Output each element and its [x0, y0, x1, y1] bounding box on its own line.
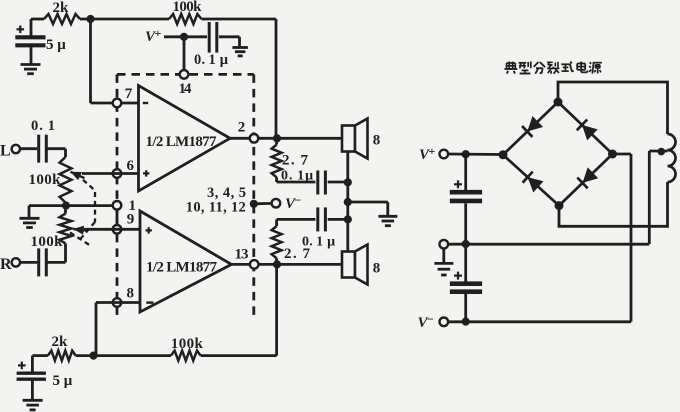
svg-text:13: 13	[235, 247, 249, 263]
node O (transformer center tap)	[649, 150, 667, 153]
svg-text:+: +	[155, 26, 162, 40]
svg-text:2k: 2k	[53, 0, 70, 16]
potentiometer RP1 100k (L volume)	[60, 157, 72, 203]
ground (below C1)	[21, 63, 41, 66]
resistor R5 2.7 (Zobel A)	[275, 138, 278, 144]
wire (transformer bottom to AC vertex)	[559, 182, 668, 226]
svg-text:3, 4, 5: 3, 4, 5	[207, 185, 246, 201]
wire (mid rail / center tap)	[448, 243, 649, 246]
wire (V- rail)	[448, 320, 631, 323]
pin 8 (inverting input B)	[113, 298, 122, 307]
wire (center tap to mid rail)	[648, 151, 651, 244]
node E (output A junction)	[273, 134, 281, 142]
svg-text:2k: 2k	[52, 334, 69, 350]
svg-text:100k: 100k	[173, 0, 203, 15]
svg-text:0. 1μ: 0. 1μ	[281, 169, 313, 184]
node A (R1/R2/pin7 junction)	[86, 15, 94, 23]
node G (speaker return top)	[344, 178, 352, 186]
diode D1 (bridge top-left)	[503, 102, 558, 155]
pin 2 (output A)	[230, 137, 342, 140]
node Q (V- / C9 junction)	[462, 318, 470, 326]
mechanical gang link (dashed)	[83, 180, 95, 222]
svg-text:1/2 LM1877: 1/2 LM1877	[146, 134, 218, 150]
svg-text:10, 11, 12: 10, 11, 12	[186, 200, 246, 216]
wire (V+ to C2)	[164, 35, 207, 38]
wire (pin 8 to feedback)	[96, 301, 140, 304]
svg-text:7: 7	[125, 86, 133, 102]
resistor R1 2k (top)	[31, 18, 44, 21]
svg-text:R: R	[0, 256, 12, 273]
wire (node A down to pin 7)	[89, 19, 92, 103]
ground (V+ bypass)	[232, 46, 248, 49]
wire (top AC vertex to transformer)	[558, 82, 668, 134]
node V- (IC supply tap)	[250, 200, 258, 208]
ground (below C5)	[23, 399, 43, 402]
capacitor C9 (lower filter electrolytic)	[464, 244, 467, 282]
svg-text:2. 7: 2. 7	[282, 153, 309, 169]
wire (V+ rail)	[448, 153, 503, 156]
ground (volume pots)	[20, 217, 40, 220]
svg-text:2: 2	[238, 120, 246, 136]
capacitor C6 0.1u (Zobel A)	[277, 181, 316, 184]
svg-text:8: 8	[373, 261, 381, 277]
wire (R4 to output node 13)	[201, 354, 277, 357]
wiper (RP1 to pin 6)	[71, 172, 85, 178]
wire (R1 to R2, top rail)	[80, 18, 169, 21]
svg-text:8: 8	[127, 286, 135, 302]
wire (C3 to volume pot)	[46, 147, 65, 150]
capacitor C5 5u (bottom electrolytic)	[31, 356, 34, 372]
op-amp U1A (1/2 LM1877)	[139, 86, 231, 192]
wiper (RP2 to pin 9)	[73, 229, 87, 231]
diode D4 (bridge bottom-right)	[559, 154, 613, 206]
wire (bridge - to V- rail)	[613, 153, 632, 156]
svg-text:+: +	[429, 144, 436, 158]
svg-text:100k: 100k	[31, 234, 64, 250]
capacitor C1 5u (top-left electrolytic)	[30, 19, 33, 38]
capacitor C4 0.1 (R input coupling)	[37, 248, 40, 276]
node N (bridge bottom AC vertex)	[555, 201, 564, 210]
svg-text:0. 1 μ: 0. 1 μ	[194, 52, 229, 68]
svg-text:6: 6	[127, 158, 135, 174]
resistor R2 100k (top feedback)	[169, 14, 202, 24]
svg-text:100k: 100k	[29, 172, 62, 188]
node P (mid rail terminal)	[440, 240, 449, 249]
wire (C2 to ground)	[219, 35, 240, 38]
node J (V+ / C8 junction)	[462, 150, 470, 158]
node L2 (bridge top AC vertex)	[554, 98, 563, 107]
wire (R2 to output node, feedback)	[202, 18, 277, 21]
svg-text:1/2 LM1877: 1/2 LM1877	[146, 260, 218, 276]
diode D2 (bridge bottom-left)	[503, 155, 559, 206]
svg-text:0. 1 μ: 0. 1 μ	[302, 235, 335, 250]
resistor R3 2k (bottom)	[32, 354, 48, 357]
capacitor C3 0.1 (L input coupling)	[37, 135, 40, 163]
node H (speaker return bottom)	[344, 215, 352, 223]
pin 13 (output B)	[232, 263, 343, 266]
pin 7 (inverting input A)	[113, 99, 122, 108]
wire (pin 14 stub)	[183, 37, 186, 71]
resistor R4 100k (bottom feedback)	[171, 351, 201, 361]
svg-text:8: 8	[373, 133, 381, 149]
capacitor C2 0.1u (V+ bypass)	[208, 22, 211, 53]
wire (C4 to RP2)	[46, 261, 65, 264]
diode D3 (bridge top-right)	[558, 102, 613, 154]
pin 9 (non-inverting input B)	[113, 225, 122, 234]
capacitor C7 0.1u (Zobel B)	[277, 218, 316, 221]
svg-text:5 μ: 5 μ	[46, 37, 66, 53]
svg-text:5 μ: 5 μ	[53, 373, 73, 389]
wire (speaker return line)	[346, 152, 349, 252]
pin 14	[180, 70, 189, 79]
ground (supply midpoint)	[442, 249, 445, 263]
ground (speaker return)	[378, 215, 397, 218]
svg-text:9: 9	[127, 212, 135, 228]
potentiometer RP2 100k (R volume)	[64, 206, 67, 214]
svg-text:−: −	[427, 312, 434, 326]
svg-text:L: L	[0, 143, 11, 160]
resistor R6 2.7 (Zobel B)	[275, 258, 278, 264]
speaker SP2 8 ohm (bottom)	[342, 252, 355, 278]
node I (return/ground tap)	[344, 198, 352, 206]
svg-text:−: −	[295, 193, 302, 207]
svg-text:0. 1: 0. 1	[31, 118, 55, 134]
node D (R3/R4/pin8 junction)	[89, 352, 97, 360]
title text (dian xing fen lie shi dian yuan - typical split supply)	[507, 62, 516, 64]
pin 1 (bias)	[113, 201, 122, 210]
svg-text:14: 14	[179, 81, 193, 97]
op-amp U1B (1/2 LM1877)	[140, 211, 232, 312]
node C (pot junction / ground)	[62, 202, 70, 210]
node B (V+/pin14 junction)	[180, 33, 188, 41]
wire (node C to pin 1)	[66, 204, 117, 207]
speaker SP1 8 ohm (top)	[342, 126, 355, 152]
pin 6 (non-inverting input A)	[113, 169, 122, 178]
svg-text:100k: 100k	[171, 336, 204, 352]
node M (bridge - vertex)	[608, 150, 617, 159]
IC boundary (dashed box LM1877)	[117, 73, 254, 76]
wire (pin1-pin9 link)	[116, 209, 119, 225]
transformer T1 secondary (coil)	[668, 134, 676, 182]
capacitor C8 (upper filter electrolytic)	[464, 154, 467, 190]
node K (bridge + vertex)	[499, 150, 508, 159]
node F (output B junction)	[273, 260, 281, 268]
